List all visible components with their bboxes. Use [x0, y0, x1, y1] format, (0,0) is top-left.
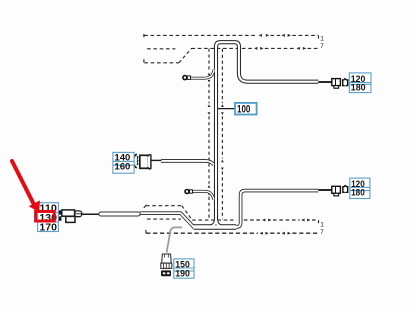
- duct top edge dashed line: [143, 34, 145, 37]
- svg-text:7: 7: [320, 43, 324, 50]
- svg-text:170: 170: [39, 223, 57, 234]
- vertical dashed guide V1: [208, 49, 210, 221]
- dashed duct outline top band: [144, 34, 319, 63]
- bottom band middle short dashed line: [147, 218, 181, 220]
- svg-text:1: 1: [320, 221, 324, 228]
- svg-text:100: 100: [237, 103, 250, 115]
- svg-text:180: 180: [351, 188, 365, 199]
- connector barrel: [75, 211, 82, 217]
- arrowheads on vertical dashed guides: [208, 73, 224, 196]
- svg-text:1: 1: [320, 35, 324, 42]
- duct lower edge dashed with jog: [143, 59, 145, 62]
- connector body lower tab: [66, 216, 75, 222]
- small round connector lower: [185, 190, 193, 194]
- harness main vertical tube: [214, 45, 218, 221]
- arrowheads on bottom dashed lines: [260, 219, 311, 235]
- wire to connector 150/190 (gray): [167, 227, 182, 252]
- thin wire lead of connector 140/160: [151, 159, 162, 161]
- svg-text:160: 160: [114, 162, 130, 173]
- bottom run tube: [194, 224, 237, 230]
- leader line for label 100: [218, 108, 235, 110]
- red pointer arrow: [12, 161, 40, 212]
- harness bottom Y split right: [216, 219, 226, 228]
- label group 140/160: [113, 152, 134, 173]
- harness bottom Y split left: [205, 219, 216, 228]
- small branch tube upper: [190, 70, 214, 79]
- label group 120/180 top: [349, 73, 371, 94]
- connector plug body: [140, 155, 148, 168]
- bottom band upper edge dashed with jog: [144, 205, 147, 208]
- small clip part: [343, 187, 348, 193]
- label 100: [235, 103, 257, 116]
- left wire tube + run + branch to bottom-right connector: [140, 191, 318, 227]
- duct middle short dashed line: [147, 48, 175, 50]
- thin wire left connector lead: [82, 213, 100, 215]
- connector right flange: [148, 155, 151, 169]
- branch tube to connector 140/160: [161, 161, 214, 164]
- svg-text:7: 7: [320, 229, 324, 236]
- red highlight box on 130: [36, 211, 55, 221]
- harness tubes: white cores: [140, 42, 318, 227]
- small round connector upper: [183, 76, 191, 80]
- connector at 110/130/170 : pin blocks: [57, 210, 82, 223]
- top-right connector assembly: [332, 78, 348, 88]
- label group 120/180 bottom: [350, 178, 370, 199]
- harness tubes: dark outlines: [140, 42, 318, 227]
- thin wire lead of bottom-right connector: [318, 189, 332, 191]
- svg-text:180: 180: [351, 83, 366, 94]
- small clip part: [343, 80, 348, 86]
- connector at 140/160 : scalloped face: [133, 154, 151, 169]
- svg-text:190: 190: [175, 268, 190, 279]
- arrowheads on top dashed lines: [254, 34, 306, 50]
- bottom band lower edge dashed line: [145, 230, 147, 234]
- label group 150/190: [174, 259, 194, 280]
- vertical dashed guide V2: [221, 49, 223, 219]
- connector body upper: [62, 210, 75, 216]
- sleeve on left wire: [99, 212, 140, 216]
- thin wire lead of top-right connector: [318, 81, 332, 83]
- label group 110/130/170: [38, 203, 59, 234]
- small branch tube lower: [192, 191, 214, 199]
- bottom-right connector assembly: [332, 185, 348, 196]
- dashed duct outline bottom band: [144, 205, 319, 234]
- harness top bump and branch to top-right connector: [216, 42, 318, 81]
- connector 150/190 body: [161, 254, 172, 276]
